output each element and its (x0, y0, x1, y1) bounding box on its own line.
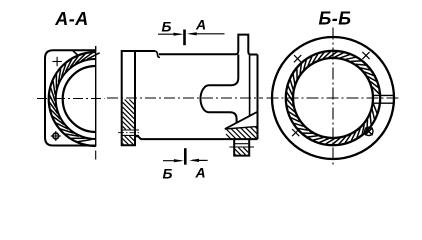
flange plate outline A-A (rounded square, open right) (45, 50, 96, 145)
arrow B top (158, 33, 183, 36)
left flange bolt hole axis (118, 132, 140, 134)
bolt center mark top-left B-B (294, 55, 301, 62)
section plane mark bottom (184, 148, 187, 165)
bottom boss (drain fitting) (234, 139, 249, 156)
horizontal centerline B-B (267, 97, 401, 99)
boss thread line (230, 146, 255, 148)
boss hatching (235, 148, 248, 155)
svg-text:Б: Б (162, 19, 172, 35)
wedge top line (225, 126, 258, 129)
vertical centerline B-B (332, 28, 334, 167)
inner right wall line (249, 55, 251, 117)
wedge hatching (226, 127, 257, 139)
boss outer arc A-A (49, 52, 96, 146)
hatching B-B ring (287, 52, 380, 145)
outer circle B-B (272, 37, 394, 159)
wall outer arc A-A (hatch band outer) (56, 59, 96, 139)
svg-text:А: А (194, 164, 205, 180)
svg-text:А-А: А-А (54, 9, 89, 29)
arrow B bottom (163, 159, 184, 162)
chamfer edge A-A (72, 50, 78, 55)
ring outer circle B-B (286, 51, 380, 145)
bolt center mark bottom-left B-B (292, 129, 299, 136)
svg-text:А: А (195, 17, 206, 33)
section plane mark top (183, 30, 186, 46)
svg-text:Б-Б: Б-Б (319, 9, 352, 29)
hatching A-A wall section (49, 53, 99, 142)
left flange bolt hole lines (122, 130, 139, 135)
body bottom edge middle view (135, 136, 258, 139)
side port lines B-B (374, 95, 395, 103)
left flange middle view (122, 51, 135, 145)
bolt hole center mark top-left A-A (52, 57, 61, 66)
body right edge (257, 55, 259, 140)
bore arc A-A (63, 66, 96, 132)
right flange plate middle view (236, 35, 258, 55)
body top edge middle view (135, 50, 155, 52)
arrow A bottom (189, 159, 208, 162)
internal cavity outline (bracket) (201, 55, 239, 123)
conical seat diagonal (225, 112, 258, 129)
bolt center mark top-right B-B (362, 52, 369, 59)
left flange hatching (123, 100, 135, 145)
svg-text:Б: Б (163, 166, 173, 182)
horizontal centerline middle view (107, 97, 263, 99)
section boundary / symmetry line A-A (95, 46, 97, 147)
bolt hole bottom-left A-A (51, 131, 61, 141)
horizontal centerline A-A (37, 98, 105, 100)
bore circle B-B (293, 58, 373, 138)
arrow A top (187, 32, 225, 35)
fillet curl top (155, 51, 160, 57)
threaded hole bottom-right B-B (365, 127, 373, 135)
boss inner line (234, 143, 249, 145)
